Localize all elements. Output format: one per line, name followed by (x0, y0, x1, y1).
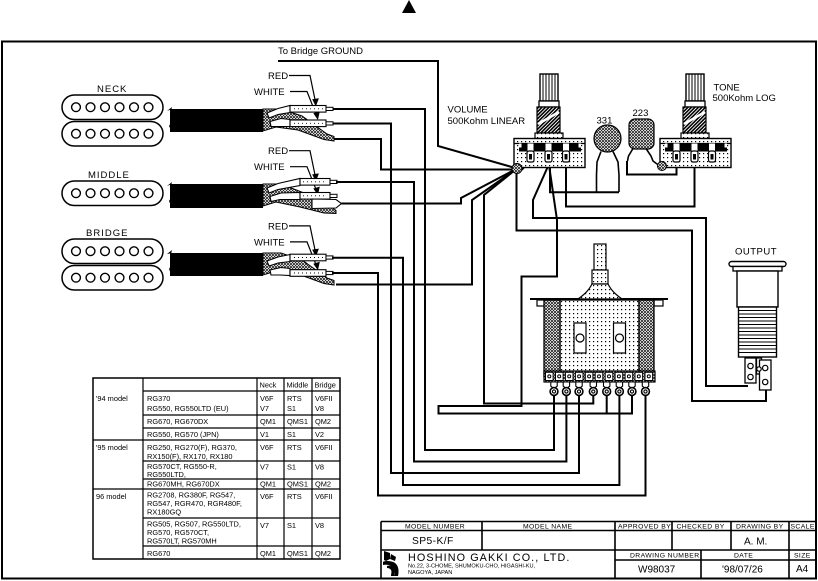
svg-text:V8: V8 (315, 404, 324, 413)
svg-text:V6F: V6F (260, 492, 274, 501)
svg-text:331: 331 (597, 116, 613, 127)
svg-text:RG550LTD,: RG550LTD, (147, 470, 186, 479)
svg-text:S1: S1 (287, 463, 296, 472)
svg-text:CHECKED BY: CHECKED BY (677, 524, 725, 531)
svg-text:V7: V7 (260, 404, 269, 413)
svg-text:223: 223 (633, 108, 649, 119)
svg-text:V7: V7 (260, 463, 269, 472)
svg-text:SP5-K/F: SP5-K/F (412, 536, 454, 547)
svg-text:DRAWING BY: DRAWING BY (736, 524, 784, 531)
svg-text:RTS: RTS (287, 394, 302, 403)
svg-text:RG550, RG570 (JPN): RG550, RG570 (JPN) (147, 430, 219, 439)
svg-text:V6FII: V6FII (315, 492, 333, 501)
svg-text:DATE: DATE (734, 553, 753, 560)
svg-text:MODEL NAME: MODEL NAME (523, 524, 573, 531)
svg-text:V6F: V6F (260, 443, 274, 452)
svg-text:96 model: 96 model (96, 492, 127, 501)
svg-text:NAGOYA, JAPAN: NAGOYA, JAPAN (408, 570, 452, 576)
svg-text:W98037: W98037 (638, 565, 676, 576)
svg-text:QM1: QM1 (260, 480, 276, 489)
svg-text:No.22, 3-CHOME, SHUMOKU-CHO, H: No.22, 3-CHOME, SHUMOKU-CHO, HIGASHI-KU, (408, 564, 536, 570)
svg-text:V6FII: V6FII (315, 443, 333, 452)
svg-text:To Bridge GROUND: To Bridge GROUND (278, 46, 363, 57)
svg-text:RTS: RTS (287, 492, 302, 501)
svg-text:RG370: RG370 (147, 394, 170, 403)
svg-text:QMS1: QMS1 (287, 417, 308, 426)
svg-text:RX180GQ: RX180GQ (147, 508, 181, 517)
svg-text:Middle: Middle (287, 381, 309, 390)
svg-text:'94 model: '94 model (96, 394, 128, 403)
svg-text:QMS1: QMS1 (287, 480, 308, 489)
svg-text:V1: V1 (260, 430, 269, 439)
svg-text:RG250, RG270(F), RG370,: RG250, RG270(F), RG370, (147, 443, 237, 452)
svg-text:500Kohm LINEAR: 500Kohm LINEAR (448, 116, 526, 127)
svg-text:Bridge: Bridge (315, 381, 336, 390)
svg-text:SCALE: SCALE (791, 524, 815, 531)
svg-text:S1: S1 (287, 430, 296, 439)
svg-text:HOSHINO GAKKI CO., LTD.: HOSHINO GAKKI CO., LTD. (408, 552, 570, 564)
svg-text:QM2: QM2 (315, 480, 331, 489)
svg-text:RG570LT, RG570MH: RG570LT, RG570MH (147, 537, 217, 546)
svg-text:A. M.: A. M. (744, 537, 767, 548)
svg-text:RG670, RG670DX: RG670, RG670DX (147, 417, 208, 426)
svg-text:RG670MH, RG670DX: RG670MH, RG670DX (147, 480, 220, 489)
svg-text:500Kohm LOG: 500Kohm LOG (713, 93, 776, 104)
svg-text:TONE: TONE (714, 83, 740, 94)
svg-text:DRAWING NUMBER: DRAWING NUMBER (630, 553, 700, 560)
svg-text:RX150(F), RX170, RX180: RX150(F), RX170, RX180 (147, 452, 232, 461)
svg-text:V7: V7 (260, 521, 269, 530)
svg-text:'98/07/26: '98/07/26 (722, 565, 763, 576)
svg-text:RG670: RG670 (147, 549, 170, 558)
svg-text:S1: S1 (287, 404, 296, 413)
svg-text:OUTPUT: OUTPUT (735, 247, 777, 258)
svg-text:V8: V8 (315, 521, 324, 530)
svg-text:V8: V8 (315, 463, 324, 472)
svg-text:V6F: V6F (260, 394, 274, 403)
svg-text:S1: S1 (287, 521, 296, 530)
svg-text:'95 model: '95 model (96, 443, 128, 452)
svg-text:QM2: QM2 (315, 417, 331, 426)
svg-text:RTS: RTS (287, 443, 302, 452)
svg-text:QM1: QM1 (260, 549, 276, 558)
svg-text:V6FII: V6FII (315, 394, 333, 403)
svg-text:APPROVED BY: APPROVED BY (618, 524, 671, 531)
svg-text:VOLUME: VOLUME (448, 105, 488, 116)
svg-text:V2: V2 (315, 430, 324, 439)
svg-text:QMS1: QMS1 (287, 549, 308, 558)
svg-text:Neck: Neck (260, 381, 277, 390)
svg-text:A4: A4 (796, 564, 809, 575)
svg-text:QM2: QM2 (315, 549, 331, 558)
svg-text:SIZE: SIZE (794, 553, 811, 560)
svg-text:BRIDGE: BRIDGE (86, 228, 128, 239)
svg-text:QM1: QM1 (260, 417, 276, 426)
svg-text:MIDDLE: MIDDLE (88, 170, 130, 181)
svg-text:MODEL NUMBER: MODEL NUMBER (405, 524, 465, 531)
svg-text:NECK: NECK (97, 84, 127, 95)
svg-text:RG550, RG550LTD (EU): RG550, RG550LTD (EU) (147, 404, 229, 413)
